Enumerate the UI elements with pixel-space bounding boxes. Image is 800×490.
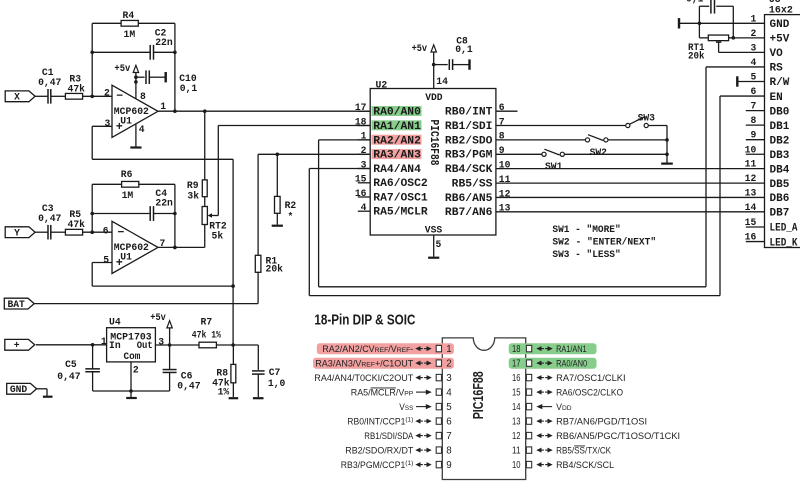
svg-text:2: 2 bbox=[104, 88, 110, 99]
svg-text:RA0/AN0: RA0/AN0 bbox=[373, 107, 421, 119]
svg-text:RA6/OSC2: RA6/OSC2 bbox=[373, 178, 427, 190]
svg-text:0,47: 0,47 bbox=[38, 213, 61, 224]
svg-text:DB7: DB7 bbox=[770, 208, 790, 220]
svg-text:10: 10 bbox=[512, 460, 521, 471]
svg-text:0,1: 0,1 bbox=[455, 44, 473, 55]
svg-text:+5v: +5v bbox=[150, 312, 166, 323]
svg-text:1: 1 bbox=[160, 101, 166, 112]
svg-text:RB3/PGM: RB3/PGM bbox=[445, 150, 493, 162]
svg-text:RB3/PGM/CCP1(1): RB3/PGM/CCP1(1) bbox=[341, 460, 414, 470]
svg-text:Out: Out bbox=[137, 340, 153, 351]
svg-text:RA5/MCLR: RA5/MCLR bbox=[373, 207, 428, 219]
svg-text:DB3: DB3 bbox=[770, 150, 790, 162]
svg-text:3: 3 bbox=[105, 118, 111, 129]
svg-text:DB2: DB2 bbox=[770, 135, 790, 147]
svg-text:0,47: 0,47 bbox=[38, 77, 61, 88]
svg-text:RB2/SDO: RB2/SDO bbox=[445, 135, 493, 147]
svg-text:RB5/SS: RB5/SS bbox=[452, 179, 493, 191]
svg-text:18: 18 bbox=[512, 344, 521, 355]
svg-text:R6: R6 bbox=[121, 169, 133, 180]
svg-text:RA2/AN2: RA2/AN2 bbox=[373, 135, 421, 147]
svg-text:DB0: DB0 bbox=[770, 106, 790, 118]
svg-text:RS: RS bbox=[770, 63, 784, 75]
svg-text:RA7/OSC1: RA7/OSC1 bbox=[373, 192, 428, 204]
svg-text:GND: GND bbox=[770, 19, 790, 31]
svg-text:DB4: DB4 bbox=[770, 164, 790, 176]
svg-text:15: 15 bbox=[512, 388, 521, 399]
svg-text:In: In bbox=[109, 340, 121, 351]
svg-text:BAT: BAT bbox=[7, 299, 25, 310]
svg-text:C5: C5 bbox=[65, 359, 77, 370]
svg-text:VO: VO bbox=[770, 48, 784, 60]
svg-text:6: 6 bbox=[446, 417, 452, 428]
svg-text:2: 2 bbox=[446, 359, 451, 370]
svg-text:4: 4 bbox=[139, 124, 145, 135]
svg-text:20k: 20k bbox=[266, 264, 284, 275]
svg-text:RB5/SS/TX/CK: RB5/SS/TX/CK bbox=[556, 446, 611, 456]
svg-text:SW3 - "LESS": SW3 - "LESS" bbox=[552, 249, 620, 260]
svg-text:RB4/SCK: RB4/SCK bbox=[445, 164, 493, 176]
svg-text:RB2/SDO/RX/DT: RB2/SDO/RX/DT bbox=[345, 446, 413, 456]
svg-text:RB1/SDI/SDA: RB1/SDI/SDA bbox=[364, 431, 413, 441]
svg-text:SW3: SW3 bbox=[638, 113, 656, 124]
svg-text:R7: R7 bbox=[201, 316, 213, 327]
svg-text:RB0/INT/CCP1(1): RB0/INT/CCP1(1) bbox=[347, 417, 413, 427]
svg-text:RB6/AN5: RB6/AN5 bbox=[445, 193, 493, 205]
svg-text:−: − bbox=[118, 227, 125, 240]
svg-text:9: 9 bbox=[446, 460, 451, 471]
svg-text:5: 5 bbox=[446, 402, 452, 413]
svg-text:+: + bbox=[116, 121, 123, 134]
svg-text:U4: U4 bbox=[109, 317, 121, 328]
svg-text:RB0/INT: RB0/INT bbox=[445, 107, 493, 119]
svg-text:RB7/AN6/PGD/T1OSI: RB7/AN6/PGD/T1OSI bbox=[556, 417, 647, 427]
svg-text:11: 11 bbox=[512, 446, 521, 457]
svg-text:U3: U3 bbox=[769, 0, 781, 5]
svg-text:5k: 5k bbox=[212, 231, 224, 242]
svg-text:0,47: 0,47 bbox=[177, 380, 200, 391]
svg-text:RA1/AN1: RA1/AN1 bbox=[556, 344, 587, 354]
svg-text:5: 5 bbox=[436, 239, 442, 250]
svg-text:RB6/AN5/PGC/T1OSO/T1CKI: RB6/AN5/PGC/T1OSO/T1CKI bbox=[556, 431, 680, 441]
svg-text:47k: 47k bbox=[68, 83, 86, 94]
svg-text:RA4/AN4/T0CKI/C2OUT: RA4/AN4/T0CKI/C2OUT bbox=[314, 373, 413, 383]
svg-text:+: + bbox=[14, 340, 20, 351]
svg-text:X: X bbox=[14, 92, 20, 103]
svg-text:Com: Com bbox=[124, 351, 141, 362]
svg-text:*: * bbox=[288, 212, 294, 223]
svg-text:RA4/AN4: RA4/AN4 bbox=[373, 164, 421, 176]
svg-text:22n: 22n bbox=[155, 197, 173, 208]
svg-text:3k: 3k bbox=[187, 191, 199, 202]
svg-text:0,1: 0,1 bbox=[180, 83, 198, 94]
svg-text:2: 2 bbox=[133, 364, 139, 375]
svg-text:RA1/AN1: RA1/AN1 bbox=[373, 121, 421, 133]
svg-text:47k: 47k bbox=[68, 219, 86, 230]
svg-text:RA6/OSC2/CLKO: RA6/OSC2/CLKO bbox=[556, 388, 623, 398]
svg-text:VDD: VDD bbox=[425, 92, 443, 103]
svg-text:6: 6 bbox=[103, 226, 109, 237]
svg-text:R/W: R/W bbox=[770, 77, 790, 89]
svg-text:17: 17 bbox=[512, 359, 521, 370]
svg-text:C7: C7 bbox=[269, 367, 281, 378]
svg-text:47k 1%: 47k 1% bbox=[192, 329, 221, 340]
svg-text:1%: 1% bbox=[218, 387, 230, 398]
svg-text:GND: GND bbox=[10, 384, 28, 395]
svg-text:LED_K: LED_K bbox=[770, 237, 798, 249]
svg-text:8: 8 bbox=[446, 446, 452, 457]
svg-text:EN: EN bbox=[770, 92, 783, 104]
svg-text:8: 8 bbox=[140, 91, 146, 102]
svg-text:20k: 20k bbox=[688, 51, 705, 62]
svg-text:13: 13 bbox=[512, 417, 521, 428]
svg-text:DB5: DB5 bbox=[770, 179, 790, 191]
svg-text:3: 3 bbox=[158, 337, 164, 348]
svg-text:R4: R4 bbox=[123, 10, 135, 21]
svg-text:0,1: 0,1 bbox=[686, 0, 704, 5]
svg-text:1: 1 bbox=[446, 344, 451, 355]
svg-text:RB4/SCK/SCL: RB4/SCK/SCL bbox=[556, 460, 614, 470]
svg-text:LED_A: LED_A bbox=[770, 223, 798, 235]
svg-text:7: 7 bbox=[446, 431, 451, 442]
svg-text:DB6: DB6 bbox=[770, 193, 790, 205]
svg-text:1M: 1M bbox=[122, 190, 134, 201]
svg-text:14: 14 bbox=[436, 76, 448, 87]
svg-text:4: 4 bbox=[446, 388, 452, 399]
svg-text:SW1: SW1 bbox=[545, 161, 563, 172]
svg-text:SW1 - "MORE": SW1 - "MORE" bbox=[552, 224, 620, 235]
svg-text:SW2 - "ENTER/NEXT": SW2 - "ENTER/NEXT" bbox=[552, 236, 656, 247]
svg-text:18-Pin DIP & SOIC: 18-Pin DIP & SOIC bbox=[314, 311, 415, 328]
svg-text:Y: Y bbox=[14, 228, 20, 239]
svg-text:1,0: 1,0 bbox=[268, 378, 286, 389]
svg-text:+5V: +5V bbox=[770, 34, 790, 46]
svg-text:RA3/AN3: RA3/AN3 bbox=[373, 150, 421, 162]
svg-text:RA5/MCLR/VPP: RA5/MCLR/VPP bbox=[351, 388, 414, 398]
svg-text:PIC16F88: PIC16F88 bbox=[427, 120, 441, 166]
svg-text:22n: 22n bbox=[155, 37, 173, 48]
svg-text:+: + bbox=[116, 257, 123, 270]
svg-text:16: 16 bbox=[512, 373, 521, 384]
svg-text:PIC16F88: PIC16F88 bbox=[470, 371, 487, 419]
svg-text:0,47: 0,47 bbox=[57, 371, 80, 382]
svg-text:R2: R2 bbox=[285, 200, 297, 211]
svg-text:−: − bbox=[116, 90, 123, 103]
svg-text:3: 3 bbox=[446, 373, 452, 384]
svg-text:14: 14 bbox=[512, 402, 521, 413]
svg-text:DB1: DB1 bbox=[770, 121, 790, 133]
svg-text:+5v: +5v bbox=[412, 43, 428, 54]
svg-text:RB7/AN6: RB7/AN6 bbox=[445, 207, 493, 219]
svg-text:VSS: VSS bbox=[425, 224, 443, 235]
svg-text:+5v: +5v bbox=[114, 63, 130, 74]
svg-text:12: 12 bbox=[512, 431, 521, 442]
svg-text:RB1/SDI: RB1/SDI bbox=[445, 121, 493, 133]
svg-text:5: 5 bbox=[103, 255, 109, 266]
svg-text:16x2: 16x2 bbox=[769, 6, 793, 17]
svg-text:R9: R9 bbox=[187, 180, 199, 191]
svg-text:1: 1 bbox=[101, 336, 107, 347]
svg-text:RA7/OSC1/CLKI: RA7/OSC1/CLKI bbox=[556, 373, 626, 383]
svg-text:SW2: SW2 bbox=[590, 147, 608, 158]
svg-text:1M: 1M bbox=[124, 29, 136, 40]
svg-text:RA0/AN0: RA0/AN0 bbox=[556, 359, 587, 369]
svg-text:U2: U2 bbox=[376, 79, 388, 90]
